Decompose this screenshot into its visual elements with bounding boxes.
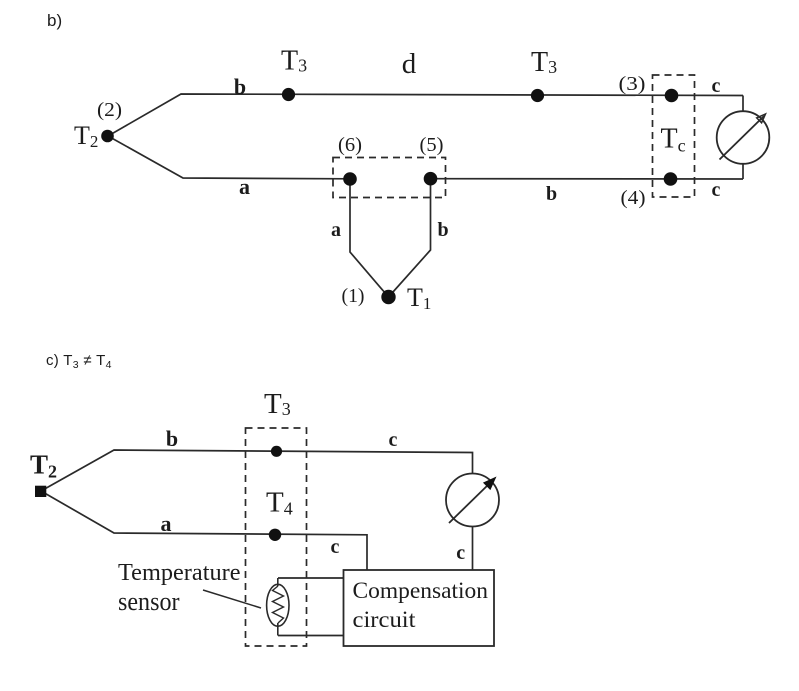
svg-text:sensor: sensor	[118, 587, 180, 616]
svg-text:b: b	[234, 74, 246, 99]
svg-text:T3: T3	[281, 46, 307, 77]
junction T2 (fig c)	[35, 486, 46, 497]
svg-text:circuit: circuit	[353, 607, 417, 632]
pointer line to sensor	[203, 590, 261, 608]
junction node 5	[424, 172, 438, 186]
wire bottom: T2 to compensation box (fig c)	[41, 491, 367, 570]
wire a: node 6 down to T1	[350, 179, 389, 297]
svg-text:b: b	[437, 219, 448, 241]
svg-text:a: a	[161, 511, 172, 536]
junction node 6	[343, 172, 357, 186]
dashed box nodes 5 and 6	[333, 158, 446, 198]
svg-text:(2): (2)	[97, 99, 122, 121]
junction node 3	[665, 89, 679, 103]
wire top: T2 to meter (fig c)	[41, 450, 473, 491]
svg-text:T2: T2	[74, 121, 98, 151]
junction T3 second	[531, 89, 544, 102]
svg-text:Temperature: Temperature	[118, 560, 241, 586]
wire meter to compensation box	[472, 527, 474, 570]
junction T3 (fig c)	[271, 446, 282, 457]
junction node 4	[664, 172, 678, 186]
svg-text:c: c	[456, 542, 465, 564]
wire b: node 5 down to T1	[389, 179, 431, 297]
svg-text:(6): (6)	[338, 134, 362, 156]
svg-text:Tc: Tc	[661, 124, 686, 156]
svg-text:b): b)	[47, 11, 62, 30]
compensation circuit box U1	[344, 570, 495, 646]
svg-text:c: c	[712, 179, 721, 201]
svg-text:T3: T3	[531, 47, 557, 78]
svg-text:b: b	[546, 183, 557, 205]
svg-text:(3): (3)	[619, 73, 646, 95]
wire meter right leg bottom	[742, 164, 744, 179]
svg-text:c) T3 ≠ T4: c) T3 ≠ T4	[46, 352, 112, 371]
svg-text:d: d	[402, 48, 417, 80]
wire bottom-left: T2 to node 6	[108, 136, 350, 179]
svg-text:(1): (1)	[342, 285, 365, 307]
svg-text:(4): (4)	[621, 187, 646, 209]
junction T4 (fig c)	[269, 529, 281, 541]
svg-text:Compensation: Compensation	[353, 578, 489, 603]
svg-text:T1: T1	[407, 283, 431, 313]
svg-text:T4: T4	[266, 487, 293, 519]
svg-text:a: a	[331, 219, 341, 241]
svg-text:c: c	[712, 75, 721, 97]
junction T2 node (2)	[101, 130, 114, 143]
temperature sensor RT	[267, 578, 289, 636]
svg-text:c: c	[331, 536, 340, 558]
svg-text:(5): (5)	[420, 134, 444, 156]
wire sensor bottom to compensation box	[278, 635, 344, 637]
meter M1	[717, 111, 770, 164]
wire b: node 5 to node 4	[431, 178, 744, 180]
dashed box Tc	[653, 75, 695, 197]
svg-text:a: a	[239, 174, 250, 199]
svg-text:b: b	[166, 426, 178, 451]
meter M2	[446, 474, 499, 527]
junction T3 first	[282, 88, 295, 101]
junction T1 node (1)	[381, 290, 395, 304]
wire sensor top to compensation box	[278, 577, 344, 579]
svg-text:T3: T3	[264, 388, 291, 420]
wire meter right leg top	[742, 96, 744, 112]
dashed box temperature sensor region	[246, 428, 307, 646]
svg-text:T2: T2	[30, 450, 57, 482]
svg-text:c: c	[389, 429, 398, 451]
wire top: T2 to meter top	[108, 94, 743, 136]
